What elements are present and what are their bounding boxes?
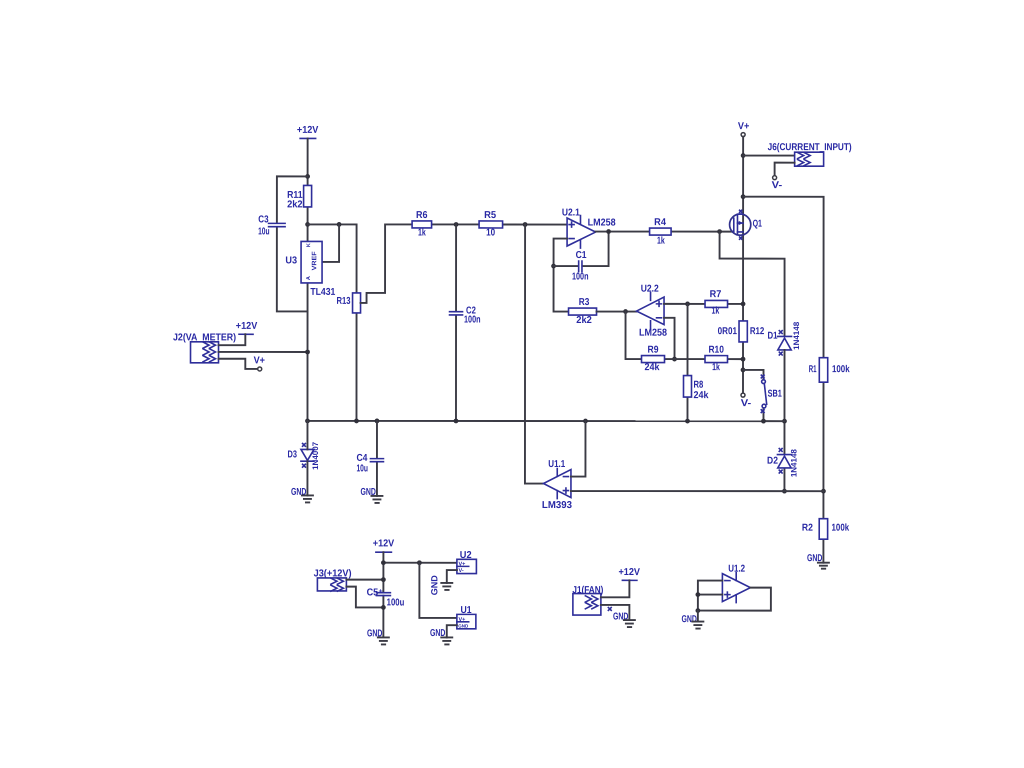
wire U1.1 inverting to rail <box>571 421 586 477</box>
node rail main <box>305 418 310 423</box>
op-amp U2.1 LM258 <box>562 208 616 249</box>
svg-text:GND: GND <box>429 575 439 596</box>
wire J2 pin2 to main line <box>219 351 308 353</box>
node rail C2 <box>454 419 459 424</box>
resistor R10 <box>705 345 728 374</box>
svg-text:1k: 1k <box>418 227 426 238</box>
power +12V bottom <box>373 538 395 552</box>
wire C2 drop <box>455 224 457 420</box>
resistor R1 <box>809 358 850 383</box>
svg-text:C1: C1 <box>576 250 587 261</box>
svg-text:100n: 100n <box>572 272 589 283</box>
ground J1 <box>608 608 635 628</box>
svg-text:V+: V+ <box>254 355 266 366</box>
node rail R13 <box>354 419 359 424</box>
op-amp U1.1 LM393 <box>542 459 572 511</box>
wire C1 feedback <box>554 232 609 267</box>
connector J3(+12V) <box>314 568 352 591</box>
svg-text:R8: R8 <box>693 380 703 391</box>
wire R8 drop <box>686 304 688 421</box>
svg-text:1N4148: 1N4148 <box>792 321 801 350</box>
wire J6 pin2 to V- terminal <box>775 163 795 176</box>
svg-text:R1: R1 <box>809 364 817 375</box>
switch SB1 <box>761 375 782 412</box>
node R10 junction on source line <box>741 357 746 362</box>
node U1 branch junction <box>417 560 422 565</box>
svg-text:GND: GND <box>681 614 696 625</box>
svg-text:R3: R3 <box>579 297 590 308</box>
wire U1.2 noninverting input <box>698 594 723 596</box>
wire +12V bottom vertical <box>382 552 384 637</box>
node U1.2 input junction <box>695 592 700 597</box>
resistor R9 <box>642 345 665 374</box>
node VREF junction <box>305 222 310 227</box>
node C1 drop junction <box>606 229 611 234</box>
node U1.2 ground junction <box>695 608 700 613</box>
node R8 junction <box>685 301 690 306</box>
svg-text:R9: R9 <box>648 345 659 356</box>
svg-text:100n: 100n <box>464 314 481 325</box>
svg-text:10: 10 <box>486 227 495 238</box>
resistor R6 <box>412 210 432 239</box>
resistor R7 <box>705 289 728 317</box>
node rail U1.1 inverting <box>583 419 588 424</box>
transistor Q1 <box>730 210 763 239</box>
op-amp U1.2 <box>722 564 750 603</box>
svg-text:A: A <box>306 276 312 280</box>
node R7 junction on source line <box>741 302 746 307</box>
op-amp U3 TL431 <box>285 241 335 298</box>
node J2 pin2 junction <box>305 350 310 355</box>
svg-text:1k: 1k <box>712 306 720 317</box>
svg-text:V-: V- <box>459 568 464 574</box>
wire U1.2 output loop <box>698 588 771 611</box>
wire +12V down to rail <box>306 138 308 420</box>
diode D1 1N4148 <box>768 321 802 355</box>
wire U1.2 inverting input <box>698 581 723 611</box>
svg-text:TL431: TL431 <box>310 287 335 298</box>
svg-text:24k: 24k <box>693 390 708 401</box>
svg-text:100u: 100u <box>387 597 405 608</box>
node U1.1 output riser junction <box>523 222 528 227</box>
wire C3 branch <box>277 176 308 311</box>
wire J2 pin3 to V+ terminal <box>219 359 258 369</box>
ground C4 <box>361 487 383 503</box>
power V+ top <box>738 121 750 137</box>
wire R1 branch <box>743 197 824 563</box>
power +12V at J2 <box>236 321 258 334</box>
wire U2.1 inverting input loop <box>554 239 569 312</box>
capacitor C4 <box>356 453 383 475</box>
wire D3 to ground <box>306 421 308 496</box>
node C5 bottom junction <box>381 605 386 610</box>
wire U1.1 noninverting line <box>571 490 823 492</box>
svg-text:100k: 100k <box>832 523 850 534</box>
wire J1 pin2 to ground <box>601 605 630 620</box>
wire J3 pin1 <box>346 579 383 581</box>
svg-text:GND: GND <box>458 623 469 628</box>
ground R2 <box>807 553 829 569</box>
diode D2 1N4148 <box>767 449 798 478</box>
svg-text:+12V: +12V <box>236 321 258 332</box>
svg-text:V-: V- <box>741 398 752 409</box>
svg-text:R12: R12 <box>750 326 765 337</box>
svg-text:D1: D1 <box>768 331 778 342</box>
svg-text:LM258: LM258 <box>588 218 616 229</box>
svg-text:10u: 10u <box>258 226 270 237</box>
svg-text:R5: R5 <box>484 210 496 221</box>
capacitor C3 <box>258 214 285 237</box>
node +12V/C3 junction <box>305 174 310 179</box>
svg-text:1N4007: 1N4007 <box>311 441 320 470</box>
resistor R5 <box>479 210 503 239</box>
resistor R8 <box>683 376 708 402</box>
node Q1 gate junction <box>717 229 722 234</box>
wire VREF node to R13 top <box>307 224 356 421</box>
power +12V top <box>297 125 319 139</box>
svg-text:2k2: 2k2 <box>287 199 303 210</box>
node C1 feedback junction left <box>551 264 556 269</box>
svg-text:C4: C4 <box>356 453 367 464</box>
svg-text:K: K <box>306 243 312 247</box>
wire J3 pin2 <box>346 587 383 608</box>
node rail C4 <box>375 419 380 424</box>
wire U1 branch <box>419 563 457 618</box>
svg-text:1k: 1k <box>712 362 720 373</box>
node V- terminal below R12 <box>741 393 752 409</box>
node inverting drop junction <box>672 357 677 362</box>
svg-text:2k2: 2k2 <box>576 315 592 326</box>
wire U2 branch <box>383 562 457 564</box>
svg-text:R6: R6 <box>416 210 428 221</box>
resistor R2 <box>802 519 850 540</box>
svg-text:10u: 10u <box>356 463 368 474</box>
node V- terminal J6 <box>772 176 783 192</box>
resistor R4 <box>650 217 672 247</box>
capacitor C5 <box>367 587 405 608</box>
resistor R11 <box>287 185 312 210</box>
wire U1 GND pin to ground <box>447 625 457 637</box>
wire J2 pin1 to +12V <box>219 334 246 345</box>
svg-text:VREF: VREF <box>311 251 318 270</box>
svg-text:SB1: SB1 <box>768 389 783 400</box>
power +12V at J1 <box>618 567 640 580</box>
node J6 branch junction <box>741 153 746 158</box>
node +12V/U2 junction <box>381 560 386 565</box>
wire R3 to U2.2 output <box>597 311 637 313</box>
node D1 rail junction <box>782 419 787 424</box>
svg-text:U2.1: U2.1 <box>562 208 580 219</box>
connector J1(FAN) <box>572 585 603 615</box>
node R1 branch junction <box>741 194 746 199</box>
wire R9 R10 line <box>626 312 744 360</box>
svg-text:V-: V- <box>772 180 783 191</box>
wire U1.1 output riser <box>525 225 544 484</box>
wire V+ down through Q1 to R12 <box>742 137 744 393</box>
block U1 <box>457 605 476 629</box>
block U2 <box>457 550 477 574</box>
wire VREF pin stub <box>322 224 339 262</box>
svg-text:+12V: +12V <box>373 538 395 549</box>
node U2.2 output junction <box>623 309 628 314</box>
svg-text:R10: R10 <box>708 345 724 356</box>
svg-text:+12V: +12V <box>297 125 319 136</box>
diode D3 1N4007 <box>288 441 320 470</box>
wire J1 pin1 to +12V <box>601 580 630 597</box>
svg-text:R13: R13 <box>337 296 351 307</box>
node rail R8 <box>685 419 690 424</box>
capacitor C2 <box>450 305 481 325</box>
node rail SB1 <box>761 419 766 424</box>
connector J2(VA_METER) <box>173 332 236 363</box>
svg-text:100k: 100k <box>832 364 850 375</box>
svg-text:+12V: +12V <box>618 567 640 578</box>
ground C5 <box>367 628 389 644</box>
wire U2.2 noninverting input to R7 <box>664 303 743 305</box>
svg-text:R4: R4 <box>654 217 666 228</box>
wire U2 V- to ground <box>447 570 457 583</box>
capacitor C1 <box>572 250 589 283</box>
svg-text:24k: 24k <box>645 362 660 373</box>
node C2 junction <box>454 222 459 227</box>
svg-text:1k: 1k <box>657 236 665 247</box>
svg-text:+: + <box>379 588 383 595</box>
wire C4 drop <box>376 421 378 496</box>
node J3 pin1 junction <box>381 577 386 582</box>
svg-text:D3: D3 <box>288 449 298 460</box>
node D2 junction on comparator line <box>782 489 787 494</box>
ground D3 <box>291 487 313 503</box>
ground U1 <box>430 628 452 645</box>
wire J6 pin1 <box>743 155 794 157</box>
svg-text:LM393: LM393 <box>542 500 572 511</box>
wire U2.2 inverting input drop <box>664 318 675 359</box>
node R1 R2 junction <box>821 489 826 494</box>
svg-text:U3: U3 <box>285 255 297 266</box>
op-amp U2.2 LM258 <box>637 284 668 339</box>
wire D1 anode to rail to D2 <box>783 350 785 491</box>
svg-text:V+: V+ <box>738 121 750 132</box>
svg-text:R7: R7 <box>710 289 722 300</box>
resistor R13 trimmer <box>337 293 361 313</box>
node SB1 branch junction <box>741 368 746 373</box>
node V+ terminal J2 <box>254 355 266 371</box>
svg-text:0R01: 0R01 <box>718 326 738 337</box>
svg-text:R2: R2 <box>802 523 813 534</box>
svg-text:LM258: LM258 <box>639 328 667 339</box>
svg-text:1N4148: 1N4148 <box>789 449 798 478</box>
ground U2 <box>429 575 452 596</box>
resistor R12 0R01 <box>718 321 765 342</box>
wire ground rail <box>307 420 784 422</box>
wire U2.1 output to Q1 gate <box>596 231 734 233</box>
node VREF stub junction <box>337 222 342 227</box>
wire gate to D1 cathode <box>720 232 785 337</box>
svg-text:C3: C3 <box>258 214 269 225</box>
svg-text:D2: D2 <box>767 456 778 467</box>
svg-text:Q1: Q1 <box>753 219 763 230</box>
wire U1.2 ground stub <box>697 611 699 622</box>
connector J6(CURRENT_INPUT) <box>768 142 852 166</box>
wire SB1 branch <box>743 370 764 421</box>
wire R13 wiper to R6 line <box>361 224 568 303</box>
resistor R3 <box>569 297 597 326</box>
svg-text:C5: C5 <box>367 587 379 598</box>
ground U1.2 <box>681 614 703 629</box>
